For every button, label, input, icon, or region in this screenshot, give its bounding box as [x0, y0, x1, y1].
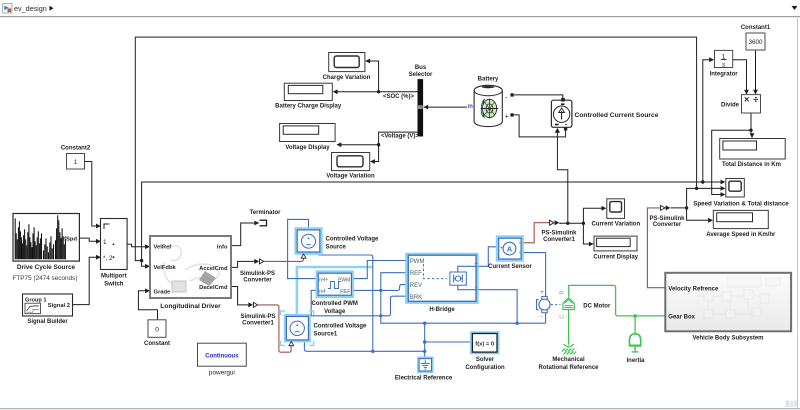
converter PS-Simulink Converter — [649, 205, 685, 228]
wire: junction up to current source signal — [557, 133, 567, 224]
wire: AccelCmd to converter — [231, 261, 255, 267]
block Current Sensor — [488, 235, 532, 270]
block Divide — [721, 95, 761, 113]
inertia — [629, 334, 642, 352]
svg-text:BRK: BRK — [410, 295, 422, 301]
svg-text:Group 1: Group 1 — [25, 298, 46, 304]
subsystem Longitudinal Driver — [150, 236, 231, 310]
svg-text:+: + — [540, 290, 544, 296]
svg-text:Total Distance in Km: Total Distance in Km — [722, 162, 781, 168]
block Drive Cycle Source — [12, 214, 79, 283]
wire inertia branch — [634, 316, 636, 334]
svg-text:Integrator: Integrator — [710, 72, 739, 78]
wire highlighted cvs1+ — [297, 267, 373, 316]
block Controlled Voltage Source1 — [281, 311, 367, 346]
svg-text:REF: REF — [410, 271, 422, 277]
svg-text:Converter1: Converter1 — [242, 321, 274, 327]
svg-text:ref-: ref- — [319, 289, 327, 295]
scope Charge Variation — [323, 53, 371, 81]
svg-text:Drive Cycle Source: Drive Cycle Source — [17, 264, 76, 271]
svg-text:AccelCmd: AccelCmd — [199, 266, 228, 272]
svg-text:Constant: Constant — [144, 341, 170, 347]
subsystem Vehicle Body — [665, 273, 791, 342]
wire: SOC branch to charge variation — [370, 61, 379, 92]
wire: battery m to bus — [428, 106, 467, 108]
svg-text:Solver: Solver — [476, 357, 495, 363]
svg-text:Battery: Battery — [478, 77, 499, 83]
svg-text:PS-Simulink: PS-Simulink — [649, 216, 685, 222]
svg-text:H-Bridge: H-Bridge — [429, 307, 455, 313]
block powergui — [198, 343, 247, 376]
svg-text:PWM: PWM — [338, 277, 350, 283]
converter Simulink-PS Converter — [240, 259, 275, 283]
block Electrical Reference — [395, 357, 453, 382]
wire PS vehicle speed (dark red) — [647, 208, 665, 288]
wire: switch out to VelRef — [127, 244, 146, 246]
svg-text:Voltage: Voltage — [324, 309, 346, 315]
svg-text:Inertia: Inertia — [626, 358, 645, 364]
wire cvs1- — [304, 340, 424, 351]
svg-text:Grade: Grade — [154, 290, 172, 296]
svg-text:f(x) = 0: f(x) = 0 — [475, 341, 494, 347]
svg-text:+: + — [500, 245, 503, 251]
svg-text:Bus: Bus — [415, 65, 427, 71]
svg-text:Divide: Divide — [721, 103, 740, 109]
svg-text:Simulink-PS: Simulink-PS — [240, 314, 275, 320]
svg-text:Voltage DIsplay: Voltage DIsplay — [285, 145, 330, 151]
block Integrator — [710, 50, 739, 77]
wire: A up to scope in2 — [687, 188, 721, 208]
svg-text:R: R — [560, 291, 566, 295]
svg-text:RefSpd: RefSpd — [57, 237, 78, 243]
wire rev in — [381, 285, 408, 291]
wire h-bridge plus to sensor — [478, 247, 499, 266]
svg-text:Current Variation: Current Variation — [591, 221, 640, 227]
svg-text:Rotational Reference: Rotational Reference — [538, 365, 599, 371]
svg-text:Current Display: Current Display — [593, 254, 638, 260]
svg-text:FTP75 (2474 seconds): FTP75 (2474 seconds) — [12, 275, 77, 282]
drive cycle waveform — [15, 215, 65, 259]
constant Constant1 — [741, 25, 771, 50]
svg-text:Terminator: Terminator — [250, 210, 282, 216]
block Solver Configuration — [465, 331, 505, 371]
svg-text:m: m — [468, 104, 473, 110]
svg-text:VelRef: VelRef — [154, 244, 172, 250]
svg-text:Converter: Converter — [653, 222, 682, 228]
wire ref- — [311, 290, 381, 315]
svg-text:Current Sensor: Current Sensor — [488, 264, 532, 270]
svg-text:ev_design: ev_design — [14, 4, 47, 13]
wire h-bridge minus — [478, 290, 518, 324]
wire: signal builder to switch in2 — [72, 257, 96, 304]
svg-text:Electrical Reference: Electrical Reference — [395, 375, 453, 381]
svg-text:Average Speed in Km/hr: Average Speed in Km/hr — [706, 232, 776, 238]
breadcrumb arrow — [50, 6, 54, 11]
terminator — [250, 210, 282, 227]
wire solver — [425, 341, 471, 343]
svg-text:<SOC (%)>: <SOC (%)> — [383, 94, 415, 100]
block Battery — [474, 77, 514, 127]
scope Speed Variation & Total distance — [693, 179, 789, 208]
svg-text:Controlled Voltage: Controlled Voltage — [314, 323, 368, 329]
wire: integrator branch — [703, 60, 710, 182]
display Total Distance in Km — [720, 139, 786, 168]
black arrowheads — [96, 57, 758, 293]
svg-text:Simulink-PS: Simulink-PS — [240, 271, 275, 277]
svg-text:Switch: Switch — [104, 282, 124, 288]
wire: ps-sim conv1 out to junctions — [560, 222, 584, 224]
wire: branch to scope in3 — [712, 130, 751, 194]
wire: SOC from bus — [337, 91, 418, 93]
wire: battery plus loop to current source bottom right — [514, 115, 566, 137]
svg-text:Voltage Variation: Voltage Variation — [326, 173, 375, 179]
constant Constant2 — [61, 146, 91, 170]
block Controlled PWM Voltage — [312, 270, 358, 315]
wire: DecelCmd to converter1 — [231, 287, 248, 305]
svg-text:<Voltage (V)>: <Voltage (V)> — [381, 134, 419, 140]
svg-text:Signal 2: Signal 2 — [48, 303, 70, 309]
wire cvs+ to ref+ — [288, 219, 319, 278]
wire PS accel (dark red) — [264, 258, 304, 262]
svg-text:Battery Charge Display: Battery Charge Display — [275, 104, 342, 110]
svg-text:Selector: Selector — [409, 72, 433, 78]
svg-text:1: 1 — [74, 159, 78, 166]
svg-text:0: 0 — [155, 326, 159, 333]
display Current Display — [593, 236, 638, 260]
block Controlled Current Source — [551, 98, 658, 131]
svg-text:-: - — [475, 285, 477, 291]
svg-text:Configuration: Configuration — [465, 365, 505, 371]
junction dots blue — [371, 289, 519, 353]
wire: to current display — [583, 223, 590, 244]
wire C to ground — [568, 310, 570, 345]
converter Simulink-PS Converter1 — [240, 302, 275, 326]
wire PS sensor to conv (dark red) — [522, 223, 550, 243]
svg-text:*, 2: *, 2 — [103, 255, 113, 262]
svg-text:Multiport: Multiport — [101, 274, 127, 280]
wire cvs- down — [319, 255, 373, 351]
svg-text:VelFdbk: VelFdbk — [154, 265, 177, 271]
wire: Voltage from bus — [341, 132, 418, 145]
svg-text:Signal Builder: Signal Builder — [27, 319, 68, 325]
wire: battery minus to current source top — [514, 95, 563, 99]
canvas right border — [797, 18, 799, 409]
wire ref in — [381, 273, 408, 291]
svg-text:-: - — [505, 94, 508, 101]
svg-text:Controlled Current Source: Controlled Current Source — [575, 112, 659, 119]
wire R to gearbox — [569, 285, 665, 316]
mechanical rotational reference ground — [562, 344, 576, 354]
svg-text:Speed Variation & Total distan: Speed Variation & Total distance — [693, 201, 789, 208]
block Controlled Voltage Source — [294, 227, 379, 258]
model icon — [3, 4, 13, 14]
wire: Info to terminator — [231, 223, 255, 246]
svg-text:Continuous: Continuous — [205, 354, 239, 360]
svg-text:A: A — [507, 245, 513, 254]
svg-text:Controlled PWM: Controlled PWM — [312, 301, 358, 307]
display Voltage DIsplay — [280, 124, 336, 151]
scope Current Variation — [591, 199, 640, 228]
wire sensor minus to motor plus — [522, 253, 546, 297]
svg-text:Constant1: Constant1 — [741, 25, 771, 31]
wire ref out net — [352, 290, 381, 315]
wire: divide out to total distance — [750, 113, 752, 134]
svg-text:Controlled Voltage: Controlled Voltage — [326, 237, 380, 243]
wire brk in — [381, 296, 408, 316]
svg-text:DC Motor: DC Motor — [583, 303, 611, 309]
svg-text:Converter1: Converter1 — [543, 237, 575, 243]
wire: A down to average speed — [687, 208, 709, 220]
svg-text:REF: REF — [340, 289, 350, 295]
display Average Speed in Km/hr — [706, 210, 776, 238]
wire electrical ref vertical — [424, 323, 426, 358]
R port block (green) — [563, 298, 574, 310]
dc motor — [537, 290, 611, 321]
svg-text:+: + — [505, 113, 509, 120]
wire: drive cycle to switch in1 — [79, 238, 96, 241]
display Battery Charge Display — [275, 83, 342, 109]
svg-text:Mechanical: Mechanical — [552, 357, 585, 363]
wire: speed feedback top loop — [135, 37, 696, 266]
wire ground bus y=323 — [381, 316, 546, 323]
canvas bottom border — [0, 408, 800, 410]
svg-text:3600: 3600 — [748, 39, 763, 46]
svg-text:DecelCmd: DecelCmd — [199, 285, 228, 291]
svg-text:Velocity Refrence: Velocity Refrence — [668, 286, 719, 292]
wire: branch to voltage variation — [374, 145, 378, 162]
svg-text:Source: Source — [326, 245, 347, 251]
svg-text:+: + — [474, 261, 478, 267]
svg-text:Info: Info — [217, 244, 228, 250]
svg-text:1: 1 — [103, 239, 107, 246]
svg-text:PS-Simulink: PS-Simulink — [541, 231, 577, 237]
wire: constant2 to switch ctl — [85, 162, 97, 227]
wire: to current variation — [583, 208, 602, 223]
block Signal Builder — [23, 294, 73, 325]
wire motor minus — [545, 312, 547, 324]
svg-text:C: C — [560, 315, 566, 319]
bottom-right status marks — [786, 401, 798, 408]
wire: 3600 to divide — [755, 50, 757, 90]
scope Voltage Variation — [326, 153, 375, 180]
wire PS decel loop (dark red) — [258, 305, 292, 352]
svg-text:Charge Variation: Charge Variation — [323, 75, 371, 81]
bus selector bar — [409, 65, 433, 137]
svg-text:Gear Box: Gear Box — [668, 315, 695, 321]
wire pwm out to h-bridge — [352, 261, 408, 279]
svg-text:REV: REV — [410, 283, 422, 289]
svg-text:Vehicle Body Subsystem: Vehicle Body Subsystem — [692, 336, 763, 342]
block Multiport Switch — [101, 219, 128, 288]
constant Constant — [144, 320, 170, 347]
wire: grade constant — [138, 291, 157, 320]
svg-text:Longitudinal Driver: Longitudinal Driver — [160, 303, 221, 310]
wire: integrator out to divide — [733, 60, 747, 91]
svg-text:PWM: PWM — [410, 259, 425, 265]
block H-Bridge — [405, 253, 479, 313]
svg-text:Constant2: Constant2 — [61, 146, 91, 152]
converter PS-Simulink Converter1 — [541, 220, 577, 243]
svg-text:-: - — [541, 315, 543, 321]
svg-text:Converter: Converter — [243, 277, 272, 283]
svg-text:Source1: Source1 — [314, 331, 338, 337]
svg-text:ref+: ref+ — [319, 277, 328, 283]
svg-text:powergui: powergui — [209, 370, 235, 377]
wire: speed line y=182 to scope/integrator — [142, 182, 721, 261]
wire: speed conv out to junction A — [671, 207, 687, 209]
